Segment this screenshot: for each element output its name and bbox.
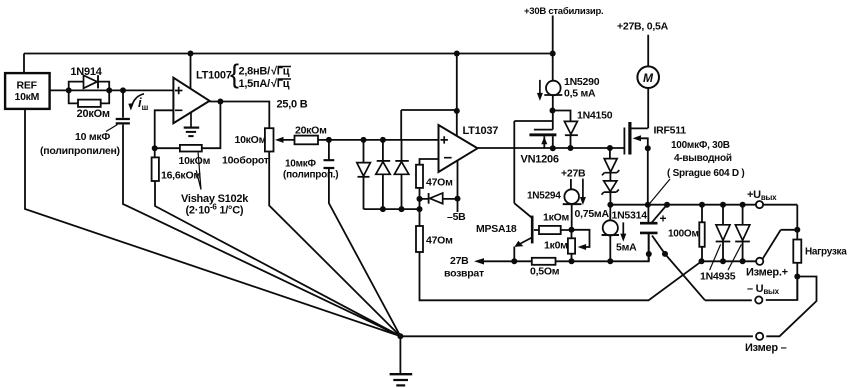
svg-text:(2·10-6 1/°C): (2·10-6 1/°C) xyxy=(186,203,244,217)
svg-text:IRF511: IRF511 xyxy=(654,125,687,137)
svg-text:–5В: –5В xyxy=(447,211,466,223)
svg-text:VN1206: VN1206 xyxy=(521,154,559,166)
svg-text:100мкФ, 30В: 100мкФ, 30В xyxy=(671,140,730,151)
svg-text:10кОм: 10кОм xyxy=(235,134,267,146)
svg-text:– Uвых: – Uвых xyxy=(747,283,780,296)
svg-text:Измер.+: Измер.+ xyxy=(746,267,788,279)
svg-text:5мА: 5мА xyxy=(616,242,637,254)
svg-text:+30В стабилизир.: +30В стабилизир. xyxy=(524,6,603,17)
svg-text:20кОм: 20кОм xyxy=(295,125,327,137)
svg-text:(полипропилен): (полипропилен) xyxy=(40,145,120,157)
svg-text:√Гц: √Гц xyxy=(271,66,290,78)
svg-text:16,6кОм: 16,6кОм xyxy=(161,170,201,182)
svg-text:LT1037: LT1037 xyxy=(463,125,499,137)
svg-text:1N5290: 1N5290 xyxy=(564,76,600,88)
svg-text:1N5294: 1N5294 xyxy=(527,191,561,202)
svg-text:1N4150: 1N4150 xyxy=(577,110,613,122)
svg-text:+: + xyxy=(660,212,667,226)
svg-text:4-выводной: 4-выводной xyxy=(674,153,732,164)
svg-text:+27В: +27В xyxy=(561,168,586,180)
svg-text:1N5314: 1N5314 xyxy=(612,210,648,222)
svg-text:10 мкФ: 10 мкФ xyxy=(75,131,110,143)
svg-text:0,5Ом: 0,5Ом xyxy=(530,266,560,278)
svg-text:Измер –: Измер – xyxy=(745,342,787,354)
svg-text:1N914: 1N914 xyxy=(70,66,102,78)
svg-text:47Ом: 47Ом xyxy=(426,177,453,189)
svg-text:√Гц: √Гц xyxy=(271,78,290,90)
svg-text:25,0 В: 25,0 В xyxy=(277,99,308,111)
svg-text:10мкФ: 10мкФ xyxy=(285,159,317,170)
svg-text:+27В, 0,5А: +27В, 0,5А xyxy=(617,21,669,33)
svg-text:M: M xyxy=(643,71,654,85)
svg-text:2,8нВ/: 2,8нВ/ xyxy=(239,66,271,78)
svg-text:0,5 мА: 0,5 мА xyxy=(564,88,596,100)
svg-text:возврат: возврат xyxy=(444,267,484,279)
svg-text:MPSA18: MPSA18 xyxy=(476,223,517,235)
svg-text:100Ом: 100Ом xyxy=(668,229,699,240)
svg-text:1,5пА/: 1,5пА/ xyxy=(239,78,271,90)
svg-text:REF: REF xyxy=(17,80,38,92)
svg-text:iш: iш xyxy=(138,95,149,112)
svg-text:10кМ: 10кМ xyxy=(15,91,40,103)
svg-text:20кОм: 20кОм xyxy=(77,108,110,120)
svg-text:0,75мА: 0,75мА xyxy=(575,208,610,220)
svg-text:1N4935: 1N4935 xyxy=(700,271,736,283)
svg-text:( Sprague 604 D ): ( Sprague 604 D ) xyxy=(667,168,744,179)
svg-text:1к0м: 1к0м xyxy=(544,240,568,252)
svg-text:1кОм: 1кОм xyxy=(543,212,570,224)
svg-text:+Uвых: +Uвых xyxy=(747,189,777,202)
svg-text:(полипроп.): (полипроп.) xyxy=(283,170,338,181)
svg-text:27В: 27В xyxy=(450,255,469,267)
svg-text:10оборот.: 10оборот. xyxy=(222,155,271,167)
svg-text:LT1007: LT1007 xyxy=(196,70,232,82)
svg-text:Нагрузка: Нагрузка xyxy=(805,247,847,258)
svg-text:10кОм: 10кОм xyxy=(179,155,211,167)
svg-text:47Ом: 47Ом xyxy=(426,235,453,247)
